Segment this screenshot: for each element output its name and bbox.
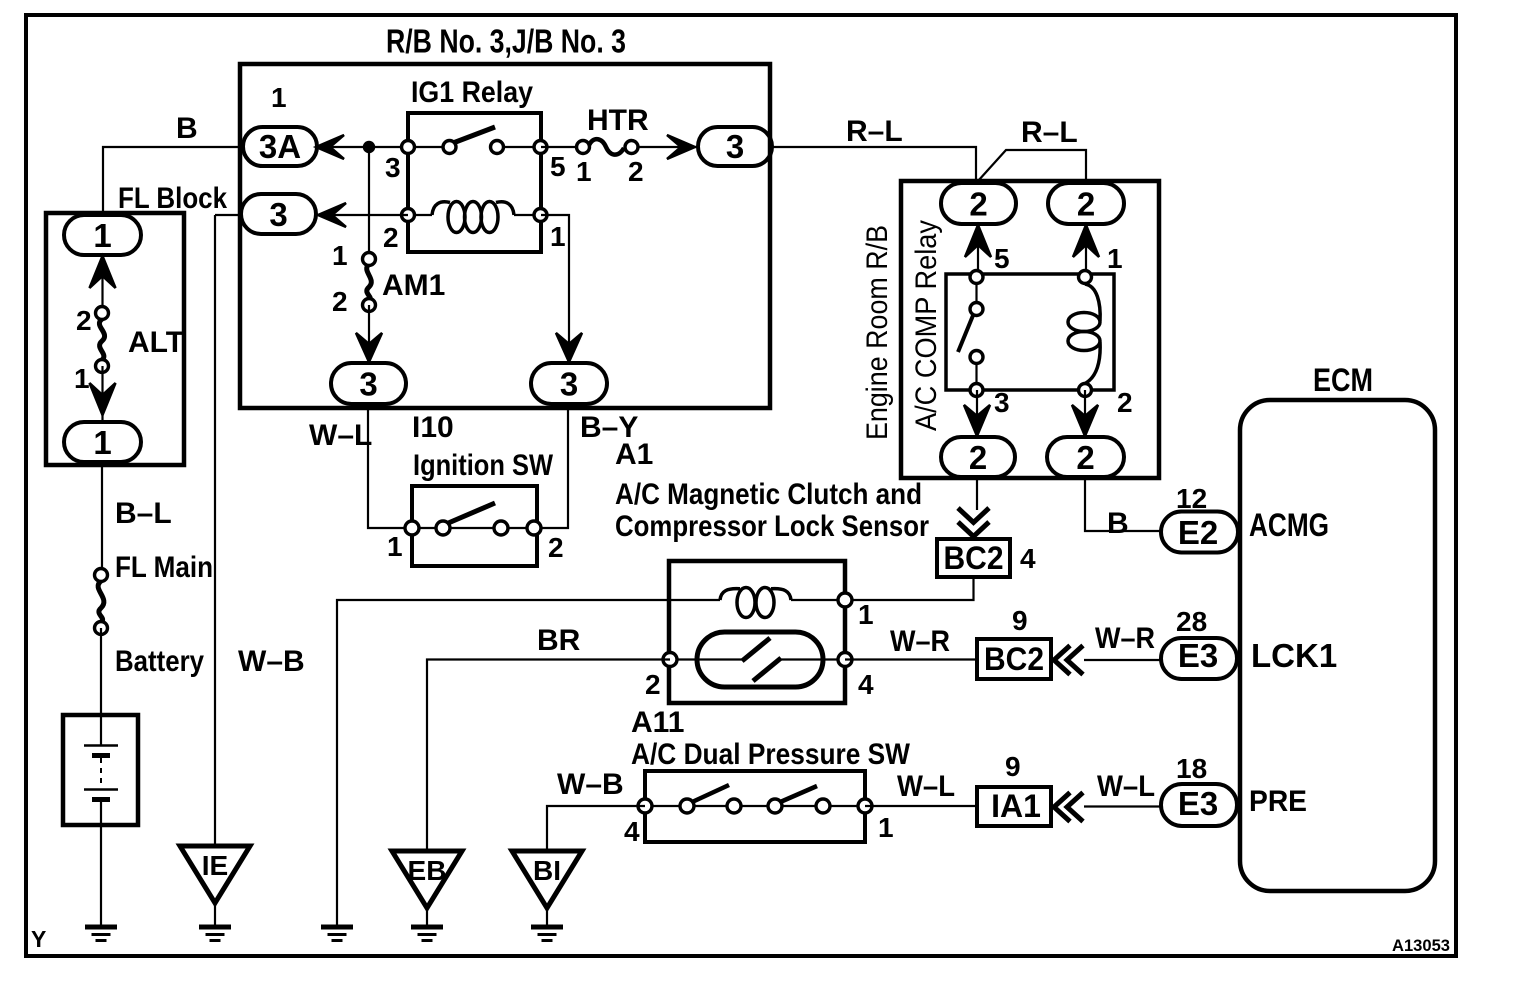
connector E3 (pin 18) xyxy=(1161,784,1237,826)
svg-text:ACMG: ACMG xyxy=(1249,507,1329,543)
label B xyxy=(176,112,198,145)
battery box xyxy=(63,715,138,825)
svg-text:W–L: W–L xyxy=(1097,770,1155,803)
svg-text:1: 1 xyxy=(93,424,111,461)
svg-text:BC2: BC2 xyxy=(984,641,1044,677)
label W-R right xyxy=(1095,622,1155,655)
label PRE xyxy=(1249,785,1307,818)
wire ALT lower xyxy=(101,366,103,422)
svg-text:9: 9 xyxy=(1005,751,1021,782)
svg-text:3: 3 xyxy=(726,128,744,165)
svg-text:Compressor Lock Sensor: Compressor Lock Sensor xyxy=(615,510,929,543)
svg-text:W–B: W–B xyxy=(238,645,305,678)
connector arrow down (ALT) xyxy=(90,383,116,415)
svg-text:A1: A1 xyxy=(615,438,653,471)
label Y xyxy=(31,926,46,952)
relay IG1 pin 5 label xyxy=(550,151,566,182)
wire B-Y xyxy=(534,404,568,528)
svg-text:B: B xyxy=(176,112,198,145)
clutch coil pin 1 label xyxy=(858,599,874,630)
wire W-L to E3 xyxy=(1084,805,1161,807)
svg-text:HTR: HTR xyxy=(587,104,649,137)
svg-text:3: 3 xyxy=(560,366,578,403)
junction dot xyxy=(364,142,374,152)
ground battery xyxy=(85,927,117,941)
connector 2 (top right) xyxy=(1048,183,1124,224)
connector arrow up (ALT) xyxy=(90,256,116,288)
svg-text:1: 1 xyxy=(93,217,111,254)
wire W-L to IA1 xyxy=(865,805,977,807)
ground triangle IE xyxy=(180,846,250,941)
connector 1 (FL Block top) xyxy=(64,215,141,255)
ground (coil return) xyxy=(321,927,353,941)
svg-text:R–L: R–L xyxy=(1021,116,1078,149)
svg-text:PRE: PRE xyxy=(1249,785,1307,818)
ignition switch I10 label xyxy=(412,411,454,444)
ignition switch name label xyxy=(413,449,554,482)
svg-text:2: 2 xyxy=(969,439,987,476)
wire W-B to pressure switch xyxy=(547,806,645,851)
A11 sensor box xyxy=(669,561,845,703)
svg-text:9: 9 xyxy=(1012,605,1028,636)
label R-L first xyxy=(846,115,903,148)
connector 2 (top left) xyxy=(941,183,1016,224)
relay IG1 coil xyxy=(402,202,548,233)
compressor lock sensor symbol xyxy=(663,632,852,687)
relay A/C COMP coil xyxy=(1068,271,1100,397)
svg-text:1: 1 xyxy=(1107,243,1123,274)
svg-text:2: 2 xyxy=(1117,387,1133,418)
connector arrow right (HTR out) xyxy=(667,135,695,159)
svg-text:2: 2 xyxy=(332,286,348,317)
svg-text:1: 1 xyxy=(858,599,874,630)
pin 9 label (IA1) xyxy=(1005,751,1021,782)
ECM label xyxy=(1313,362,1373,398)
Engine Room R/B label xyxy=(861,225,894,440)
junction connector IA1 xyxy=(977,787,1051,826)
connector 2 (bottom left) xyxy=(941,437,1015,477)
relay IG1 label xyxy=(411,76,533,109)
label ACMG xyxy=(1249,507,1329,543)
fuse AM1 pin 2 label xyxy=(332,286,348,317)
wire B to E2 xyxy=(1085,477,1161,531)
svg-text:4: 4 xyxy=(1020,543,1036,574)
wire top left oval to relay pin 5 xyxy=(977,224,979,277)
junction block R/B No.3 J/B No.3 box xyxy=(240,64,770,408)
wire BR xyxy=(427,660,670,852)
ignition switch box xyxy=(412,486,537,566)
wire W-L xyxy=(368,404,412,528)
label Compressor Lock Sensor xyxy=(615,510,929,543)
COMP relay pin 2 label xyxy=(1117,387,1133,418)
label W-R left xyxy=(890,625,950,658)
svg-text:3: 3 xyxy=(269,196,287,233)
svg-text:AM1: AM1 xyxy=(382,269,445,302)
svg-text:1: 1 xyxy=(878,812,894,843)
connector arrow at 3A xyxy=(316,135,344,159)
pressure switch box xyxy=(645,771,865,842)
wire bottom left oval to BC2 xyxy=(976,477,978,510)
svg-text:A11: A11 xyxy=(631,706,684,739)
svg-text:2: 2 xyxy=(645,669,661,700)
wire W-B xyxy=(214,215,216,846)
ALT pin 1 label xyxy=(74,363,90,394)
chevron arrows down at BC2 xyxy=(958,508,989,537)
label BR xyxy=(537,624,581,657)
svg-text:3: 3 xyxy=(994,387,1010,418)
fuse HTR pin 1 label xyxy=(576,156,592,187)
label A11 xyxy=(631,706,684,739)
connector arrow at 3 (row 2) xyxy=(318,203,346,227)
svg-text:Y: Y xyxy=(31,926,46,952)
svg-text:2: 2 xyxy=(548,532,564,563)
svg-text:A/C Dual Pressure SW: A/C Dual Pressure SW xyxy=(631,738,911,771)
wire coil return to ground xyxy=(337,600,668,926)
wire connector 3 to relay pin 2 xyxy=(316,214,408,216)
chevron arrows left at IA1 xyxy=(1054,793,1083,822)
wire ALT upper xyxy=(101,255,103,313)
svg-text:4: 4 xyxy=(858,669,874,700)
wire relay pin 3 to bottom oval xyxy=(976,390,978,437)
svg-text:I10: I10 xyxy=(412,411,454,444)
connector arrow down (B-Y) xyxy=(556,333,582,362)
fuse AM1 label xyxy=(382,269,445,302)
label B-L xyxy=(115,497,172,530)
connector 1 (FL Block bottom) xyxy=(64,422,141,462)
connector 2 (bottom right) xyxy=(1047,437,1124,477)
wire top right oval to relay pin 1 xyxy=(1085,224,1087,277)
fusible link FL Main label xyxy=(115,551,213,584)
wire W-B stub to connector 3 xyxy=(215,214,241,216)
COMP relay pin 3 label xyxy=(994,387,1010,418)
connector 3 (HTR out) xyxy=(698,127,772,166)
svg-text:Engine Room R/B: Engine Room R/B xyxy=(861,225,894,440)
svg-text:3A: 3A xyxy=(259,128,301,165)
wire battery to ground xyxy=(100,800,102,927)
wire BC2 to clutch coil pin 1 xyxy=(845,577,974,600)
A/C COMP Relay label xyxy=(910,220,943,431)
wire 3A to relay pin 3 xyxy=(317,146,408,148)
label LCK1 xyxy=(1251,637,1337,674)
svg-text:E3: E3 xyxy=(1178,785,1218,822)
wire B-L xyxy=(101,462,103,575)
svg-text:IG1 Relay: IG1 Relay xyxy=(411,76,533,109)
svg-text:W–R: W–R xyxy=(890,625,950,658)
fusible link FL Main xyxy=(95,569,108,635)
junction connector BC2 (pin 9) xyxy=(977,639,1051,679)
svg-text:W–R: W–R xyxy=(1095,622,1155,655)
wire B xyxy=(103,147,243,217)
BC2 pin 4 label xyxy=(1020,543,1036,574)
wire W-R left xyxy=(845,658,977,660)
COMP relay pin 1 label xyxy=(1107,243,1123,274)
wire relay pin 1 down xyxy=(541,215,569,363)
connector E3 (pin 28) xyxy=(1161,637,1237,679)
fusible link ALT xyxy=(96,307,109,373)
connector arrow up (pin 1) xyxy=(1073,225,1099,257)
svg-text:5: 5 xyxy=(550,151,566,182)
wire W-R right xyxy=(1084,659,1161,661)
pressure switch contacts xyxy=(638,785,872,813)
svg-text:2: 2 xyxy=(383,222,399,253)
junction connector BC2 (pin 4) xyxy=(937,539,1010,577)
label B-Y xyxy=(580,411,638,444)
connector arrow down (pin 2) xyxy=(1072,405,1098,436)
svg-text:28: 28 xyxy=(1176,606,1207,637)
svg-text:1: 1 xyxy=(271,82,287,113)
Engine Room R/B box xyxy=(901,181,1159,478)
relay IG1 box xyxy=(408,113,541,252)
svg-text:2: 2 xyxy=(1076,439,1094,476)
pin 1 label above connector 3A xyxy=(271,82,287,113)
connector arrow up (pin 5) xyxy=(965,225,991,257)
ignition switch pin 1 label xyxy=(387,531,403,562)
svg-text:BI: BI xyxy=(533,855,561,886)
sensor pin 2 label xyxy=(645,669,661,700)
svg-text:3: 3 xyxy=(385,152,401,183)
sensor pin 4 label xyxy=(858,669,874,700)
svg-text:1: 1 xyxy=(332,240,348,271)
pin 9 label (BC2) xyxy=(1012,605,1028,636)
label A/C Magnetic Clutch and xyxy=(615,478,922,511)
svg-text:E2: E2 xyxy=(1178,514,1218,551)
svg-text:Battery: Battery xyxy=(115,645,204,678)
fuse AM1 xyxy=(363,253,376,312)
label Battery xyxy=(115,645,204,678)
ground triangle BI xyxy=(512,851,582,941)
svg-text:A/C COMP Relay: A/C COMP Relay xyxy=(910,220,943,431)
ground triangle EB xyxy=(392,851,462,941)
connector 3 (row 2) xyxy=(241,194,316,234)
svg-text:W–B: W–B xyxy=(557,768,624,801)
svg-text:E3: E3 xyxy=(1178,637,1218,674)
label W-B (pressure) xyxy=(557,768,624,801)
ALT pin 2 label xyxy=(76,305,92,336)
svg-text:R/B No. 3,J/B No. 3: R/B No. 3,J/B No. 3 xyxy=(386,23,626,60)
svg-text:LCK1: LCK1 xyxy=(1251,637,1337,674)
svg-text:1: 1 xyxy=(576,156,592,187)
chevron arrows left at BC2 xyxy=(1054,646,1083,675)
connector 3 (AM1 out) xyxy=(331,363,406,404)
fusible link ALT label xyxy=(128,326,184,359)
relay IG1 pin 1 label xyxy=(550,221,566,252)
pressure switch pin 4 label xyxy=(624,816,640,847)
label A1 xyxy=(615,438,653,471)
relay A/C COMP switch contact xyxy=(958,271,983,397)
wire relay pin 2 to bottom oval xyxy=(1084,390,1086,437)
svg-text:2: 2 xyxy=(969,186,987,223)
svg-text:BC2: BC2 xyxy=(944,540,1004,576)
label A/C Dual Pressure SW xyxy=(631,738,911,771)
svg-text:1: 1 xyxy=(387,531,403,562)
svg-text:BR: BR xyxy=(537,624,581,657)
svg-text:18: 18 xyxy=(1176,753,1207,784)
svg-text:EB: EB xyxy=(408,855,447,886)
relay IG1 pin 3 label xyxy=(385,152,401,183)
svg-text:2: 2 xyxy=(628,156,644,187)
label W-L xyxy=(309,419,372,452)
svg-text:B–L: B–L xyxy=(115,497,172,530)
fuse AM1 wire from junction xyxy=(368,147,370,259)
svg-text:IE: IE xyxy=(202,850,228,881)
svg-text:1: 1 xyxy=(550,221,566,252)
wire relay coil row xyxy=(408,214,541,216)
svg-text:FL Block: FL Block xyxy=(118,182,227,215)
ECM box xyxy=(1240,400,1435,891)
ignition switch contacts xyxy=(405,503,541,535)
fuse AM1 pin 1 label xyxy=(332,240,348,271)
svg-text:A/C Magnetic Clutch and: A/C Magnetic Clutch and xyxy=(615,478,922,511)
svg-text:Ignition SW: Ignition SW xyxy=(413,449,554,482)
FL Block box xyxy=(46,213,184,465)
svg-text:FL Main: FL Main xyxy=(115,551,213,584)
ignition switch pin 2 label xyxy=(548,532,564,563)
svg-text:IA1: IA1 xyxy=(991,788,1041,824)
fuse HTR pin 2 label xyxy=(628,156,644,187)
wire relay switch row xyxy=(408,146,541,148)
svg-text:2: 2 xyxy=(76,305,92,336)
junction block R/B No.3 J/B No.3 label xyxy=(386,23,626,60)
wire R-L second segment xyxy=(978,150,1086,183)
wire AM1 to connector 3 xyxy=(368,305,370,363)
label W-L (right) xyxy=(1097,770,1155,803)
label A13053 xyxy=(1392,936,1450,955)
label W-B xyxy=(238,645,305,678)
svg-text:1: 1 xyxy=(74,363,90,394)
fuse HTR xyxy=(541,139,698,155)
clutch coil xyxy=(668,588,852,618)
label B (E2 wire) xyxy=(1107,507,1129,540)
connector arrow down (pin 3) xyxy=(964,405,990,436)
svg-text:ECM: ECM xyxy=(1313,362,1373,398)
connector 3A xyxy=(243,127,317,166)
connector E2 xyxy=(1161,512,1238,553)
pin 18 label xyxy=(1176,753,1207,784)
pin 12 label xyxy=(1176,483,1207,514)
svg-text:W–L: W–L xyxy=(309,419,372,452)
pin 28 label xyxy=(1176,606,1207,637)
svg-text:A13053: A13053 xyxy=(1392,936,1450,955)
svg-text:5: 5 xyxy=(994,243,1010,274)
svg-text:4: 4 xyxy=(624,816,640,847)
connector arrow down (AM1) xyxy=(356,333,382,362)
COMP relay pin 5 label xyxy=(994,243,1010,274)
connector 3 (B-Y out) xyxy=(531,363,607,404)
pressure switch pin 1 label xyxy=(878,812,894,843)
svg-text:2: 2 xyxy=(1077,186,1095,223)
fuse HTR label xyxy=(587,104,649,137)
relay IG1 pin 2 label xyxy=(383,222,399,253)
label R-L second xyxy=(1021,116,1078,149)
wire R-L first segment xyxy=(772,147,976,183)
svg-text:B: B xyxy=(1107,507,1129,540)
FL Block label xyxy=(118,182,227,215)
label W-L (left of IA1) xyxy=(897,770,955,803)
svg-text:12: 12 xyxy=(1176,483,1207,514)
relay IG1 switch contact xyxy=(402,127,548,154)
svg-text:ALT: ALT xyxy=(128,326,184,359)
battery cells xyxy=(84,746,118,800)
wire battery top xyxy=(100,628,102,745)
relay A/C COMP box xyxy=(946,274,1114,390)
svg-text:R–L: R–L xyxy=(846,115,903,148)
svg-text:3: 3 xyxy=(359,366,377,403)
svg-text:W–L: W–L xyxy=(897,770,955,803)
